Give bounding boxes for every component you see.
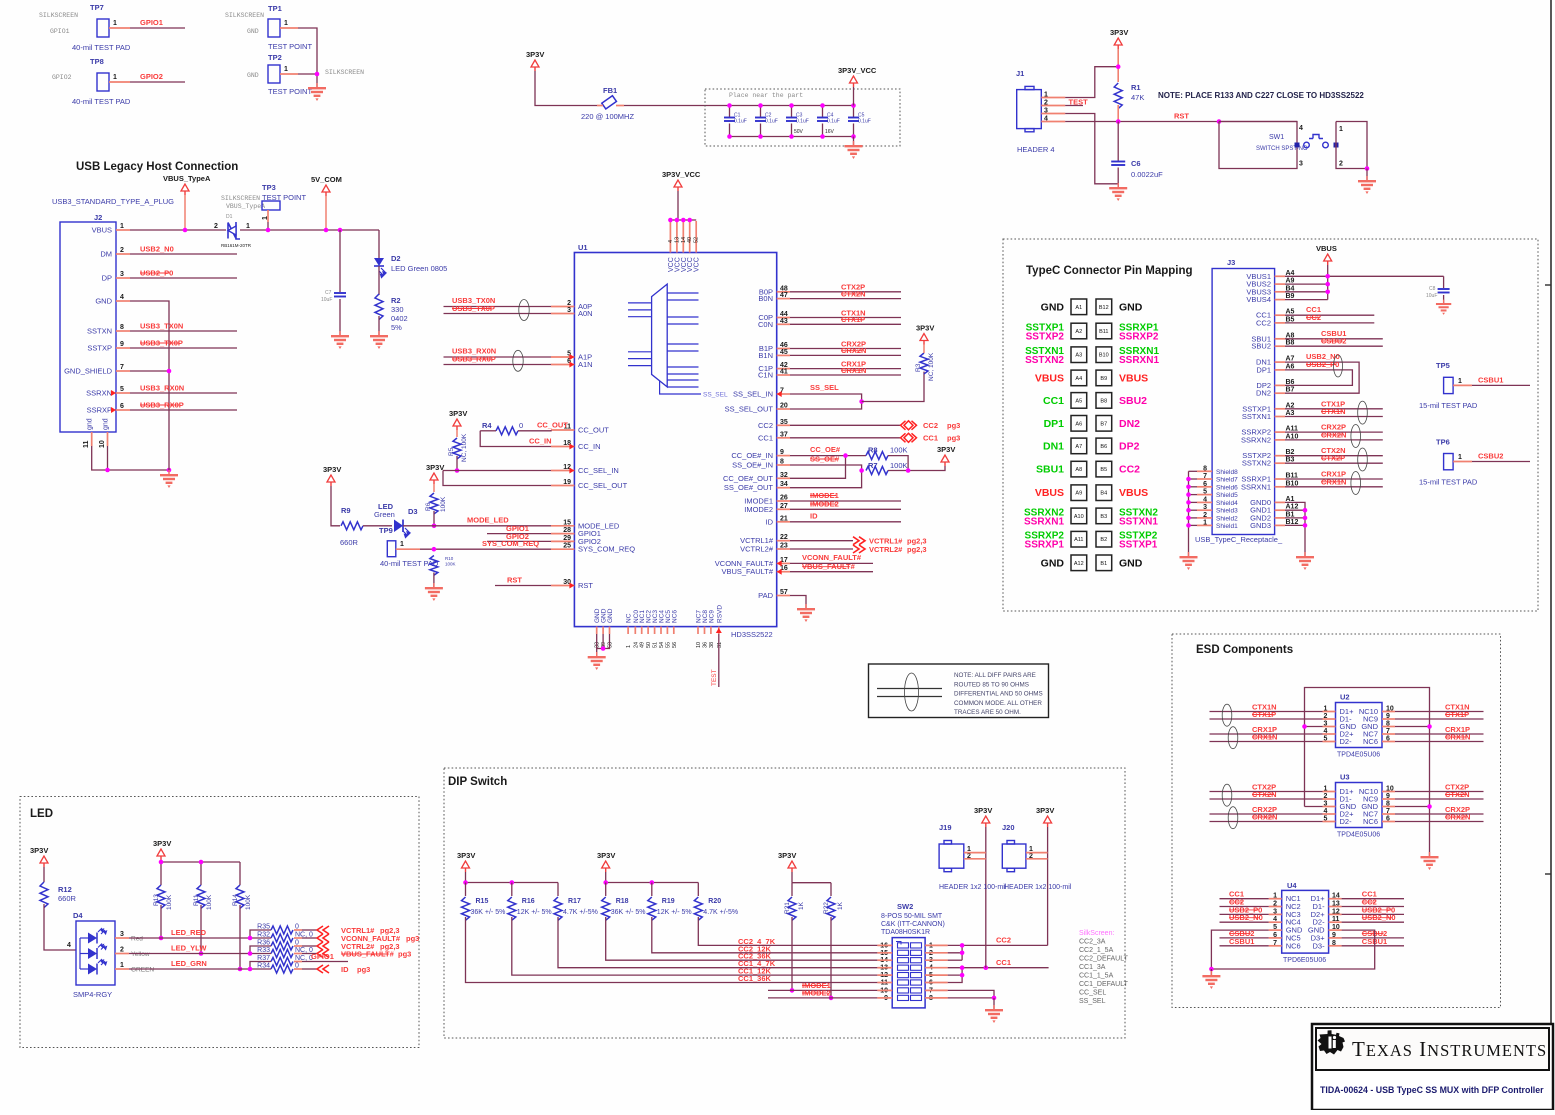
capacitor C5 0.1uF bbox=[853, 106, 855, 118]
svg-text:USB_TypeC_Receptacle_: USB_TypeC_Receptacle_ bbox=[1195, 535, 1283, 544]
svg-text:10: 10 bbox=[696, 642, 702, 648]
svg-text:pg3: pg3 bbox=[398, 950, 411, 959]
SW2 position 7 bbox=[898, 988, 909, 993]
svg-text:NC6: NC6 bbox=[671, 610, 678, 623]
capacitor C3 0.1uF bbox=[791, 106, 793, 118]
svg-text:CC1: CC1 bbox=[758, 433, 773, 442]
svg-text:SSTXN1: SSTXN1 bbox=[1119, 516, 1158, 527]
svg-text:VCTRL2#: VCTRL2# bbox=[740, 545, 774, 554]
svg-text:50: 50 bbox=[646, 642, 652, 648]
svg-text:3: 3 bbox=[120, 271, 124, 278]
svg-text:4: 4 bbox=[120, 294, 124, 301]
svg-text:36K +/- 5%: 36K +/- 5% bbox=[471, 909, 506, 916]
svg-text:RST: RST bbox=[507, 576, 522, 585]
wire CRX1P bbox=[1210, 733, 1323, 735]
svg-text:HEADER 1x2 100-mil: HEADER 1x2 100-mil bbox=[1004, 884, 1072, 891]
wire to R35 bbox=[250, 930, 271, 938]
svg-text:9: 9 bbox=[120, 341, 124, 348]
svg-text:GND: GND bbox=[1119, 557, 1143, 569]
svg-text:1: 1 bbox=[626, 645, 632, 648]
svg-text:R11: R11 bbox=[193, 894, 200, 906]
power 3P3V R3 bbox=[920, 334, 928, 341]
svg-text:GND: GND bbox=[1041, 301, 1065, 313]
wire CTX1P/CTX1N J3 bbox=[1285, 408, 1383, 410]
junction TP1/TP2 bbox=[315, 72, 320, 77]
wire LED_GRN bbox=[129, 968, 250, 970]
wire CTX2P bbox=[1210, 791, 1323, 793]
svg-text:B5: B5 bbox=[1100, 467, 1107, 473]
wire R18 to SW2 bbox=[606, 917, 878, 960]
wire CC_OUT/CC_IN bbox=[480, 431, 551, 447]
svg-text:1: 1 bbox=[120, 962, 124, 969]
resistor R22 1K bbox=[827, 897, 835, 920]
wire GPIO1 GPIO2 bbox=[487, 533, 551, 535]
wire IMODE1 IMODE2 bbox=[790, 500, 901, 502]
resistor R12 660R bbox=[43, 867, 45, 882]
svg-text:A10: A10 bbox=[1074, 514, 1084, 520]
svg-text:B2: B2 bbox=[1100, 537, 1107, 543]
svg-text:pg3: pg3 bbox=[406, 934, 419, 943]
svg-text:A9: A9 bbox=[1075, 491, 1082, 497]
junction R5/CC_SEL bbox=[455, 468, 460, 473]
svg-text:D2: D2 bbox=[391, 254, 401, 263]
svg-text:3P3V: 3P3V bbox=[1110, 28, 1128, 37]
capacitor C4 0.1uF bbox=[822, 106, 824, 118]
ground J2 bbox=[160, 470, 178, 488]
svg-text:TP2: TP2 bbox=[268, 53, 282, 62]
svg-text:GND: GND bbox=[1119, 301, 1143, 313]
power 3P3V R5 bbox=[453, 419, 461, 426]
svg-text:C0N: C0N bbox=[758, 320, 773, 329]
svg-text:4: 4 bbox=[1299, 125, 1303, 132]
resistor R21 1K bbox=[788, 897, 796, 920]
wire GPIO1 bbox=[130, 27, 185, 29]
wire to R36 bbox=[250, 946, 271, 954]
svg-text:TP5: TP5 bbox=[1436, 361, 1450, 370]
table row A5/B8 bbox=[1071, 393, 1087, 409]
table row A6/B7 bbox=[1071, 416, 1087, 432]
svg-text:CSBU1: CSBU1 bbox=[1478, 376, 1503, 385]
wire GND pin4 vertical bbox=[130, 301, 169, 470]
svg-text:ROUTED 85 TO 90 OHMS: ROUTED 85 TO 90 OHMS bbox=[954, 681, 1029, 688]
svg-text:NC6: NC6 bbox=[1363, 737, 1378, 746]
svg-text:DP1: DP1 bbox=[1256, 365, 1271, 374]
resistor R16 12K +/- 5% bbox=[511, 883, 513, 897]
svg-text:pg3: pg3 bbox=[947, 434, 960, 443]
svg-text:1: 1 bbox=[246, 223, 250, 230]
wire CC1 U4 bbox=[1220, 898, 1269, 900]
ground C6 bbox=[1117, 184, 1118, 187]
svg-text:gnd: gnd bbox=[103, 418, 110, 430]
svg-text:J20: J20 bbox=[1002, 823, 1015, 832]
svg-text:CSBU1: CSBU1 bbox=[1229, 937, 1254, 946]
svg-text:A5: A5 bbox=[1075, 398, 1082, 404]
svg-text:D3: D3 bbox=[408, 507, 418, 516]
svg-text:GPIO1: GPIO1 bbox=[50, 28, 70, 35]
svg-text:1: 1 bbox=[1458, 378, 1462, 385]
svg-text:B4: B4 bbox=[1100, 491, 1107, 497]
svg-text:R16: R16 bbox=[522, 898, 535, 905]
wire shield bus bbox=[1188, 471, 1190, 556]
power 3P3V LED bbox=[40, 856, 48, 863]
resistor R3 NC,100K bbox=[862, 372, 924, 402]
wire CC2 offpage bbox=[790, 424, 901, 426]
svg-text:D3-: D3- bbox=[1313, 941, 1326, 950]
ground C7 bbox=[331, 331, 349, 349]
svg-text:38: 38 bbox=[709, 642, 715, 648]
svg-text:R9: R9 bbox=[341, 506, 351, 515]
junction gnd vertical bbox=[167, 468, 172, 473]
table row A9/B4 bbox=[1071, 485, 1087, 501]
wire R20 to SW2 bbox=[698, 917, 877, 945]
svg-text:CC_OE#_IN: CC_OE#_IN bbox=[731, 451, 773, 460]
svg-text:SILKSCREEN: SILKSCREEN bbox=[225, 12, 264, 19]
svg-text:CC2: CC2 bbox=[923, 421, 938, 430]
wire USB2_P0 U4 bbox=[1220, 913, 1269, 915]
svg-text:LED Green 0805: LED Green 0805 bbox=[391, 264, 447, 273]
wire 3P3V to R1 bbox=[1117, 49, 1119, 55]
wire rail R18-R20 bbox=[605, 872, 607, 883]
power 3P3V R13 bbox=[157, 849, 165, 856]
svg-text:GPIO2: GPIO2 bbox=[140, 72, 163, 81]
junction CC_OE# bbox=[843, 453, 848, 458]
power 3P3V R18 bbox=[602, 861, 610, 868]
svg-text:CC1: CC1 bbox=[923, 434, 938, 443]
svg-text:SSRXN2: SSRXN2 bbox=[1241, 435, 1271, 444]
cap rail bottom bbox=[730, 136, 854, 138]
svg-text:SSRXN: SSRXN bbox=[86, 389, 112, 398]
svg-text:3P3V: 3P3V bbox=[30, 846, 48, 855]
U1 RSVD TEST net bbox=[718, 634, 720, 687]
svg-text:ID: ID bbox=[810, 512, 818, 521]
wire CRX2P/CRX2N J3 bbox=[1285, 431, 1383, 433]
capacitor C2 0.1uF bbox=[760, 106, 762, 118]
svg-text:R13: R13 bbox=[153, 894, 160, 906]
svg-text:1: 1 bbox=[120, 223, 124, 230]
svg-text:R19: R19 bbox=[662, 898, 675, 905]
svg-text:36K +/- 5%: 36K +/- 5% bbox=[611, 909, 646, 916]
junction VBUS_TypeA bbox=[183, 228, 188, 233]
svg-text:SS_OE#_IN: SS_OE#_IN bbox=[732, 461, 773, 470]
resistor R15 36K +/- 5% bbox=[465, 883, 467, 897]
dashed box DIP Switch bbox=[444, 768, 1125, 1038]
SW2 position 4 bbox=[898, 965, 909, 970]
wire CRX2N bbox=[790, 354, 901, 356]
wire CSBU2 TP6 bbox=[1472, 461, 1530, 463]
svg-text:B12: B12 bbox=[1099, 305, 1109, 311]
page frame right border bbox=[1550, 0, 1552, 1110]
junction C7 bbox=[338, 228, 343, 233]
svg-text:CC1_3A: CC1_3A bbox=[1079, 964, 1106, 971]
svg-text:USB2_N0: USB2_N0 bbox=[140, 245, 174, 254]
U1 VCC pin 40 bbox=[689, 221, 691, 253]
svg-text:SILKSCREEN: SILKSCREEN bbox=[39, 12, 78, 19]
svg-text:Shield2: Shield2 bbox=[1216, 515, 1238, 522]
offpage VCTRL2# bbox=[317, 942, 329, 950]
svg-text:GPIO1: GPIO1 bbox=[311, 952, 334, 961]
svg-text:VBUS: VBUS bbox=[1119, 372, 1148, 384]
wire J3 GND rows bbox=[1285, 502, 1305, 556]
svg-text:TPD4E05U06: TPD4E05U06 bbox=[1337, 832, 1380, 839]
svg-text:CC_IN: CC_IN bbox=[529, 437, 552, 446]
wire VBUS_TypeA bbox=[130, 229, 226, 231]
svg-text:NC6: NC6 bbox=[1363, 817, 1378, 826]
capacitor C6 0.0022uF bbox=[1117, 122, 1119, 162]
svg-text:VBUS_TypeA: VBUS_TypeA bbox=[226, 203, 265, 210]
svg-text:3P3V: 3P3V bbox=[526, 50, 544, 59]
svg-text:GND: GND bbox=[607, 608, 614, 623]
ground SW1 bbox=[1358, 176, 1376, 194]
svg-text:1: 1 bbox=[1458, 454, 1462, 461]
svg-text:8-POS 50-MIL SMT: 8-POS 50-MIL SMT bbox=[881, 913, 943, 920]
svg-text:B9: B9 bbox=[1100, 376, 1107, 382]
svg-text:40: 40 bbox=[687, 237, 693, 243]
svg-text:3: 3 bbox=[120, 931, 124, 938]
svg-text:R14: R14 bbox=[232, 894, 239, 906]
svg-text:3P3V: 3P3V bbox=[323, 465, 341, 474]
junction 3P3V/J1.1 bbox=[1116, 64, 1121, 69]
svg-text:CC_SEL: CC_SEL bbox=[1079, 990, 1106, 997]
wire CTX1N bbox=[790, 317, 901, 319]
svg-text:B1N: B1N bbox=[758, 351, 773, 360]
svg-text:J3: J3 bbox=[1227, 258, 1235, 267]
svg-text:Shield1: Shield1 bbox=[1216, 523, 1238, 530]
svg-text:R4: R4 bbox=[482, 421, 492, 430]
svg-text:SSTXN2: SSTXN2 bbox=[1242, 459, 1271, 468]
offpage VCTRL2# bbox=[853, 545, 865, 553]
svg-text:52: 52 bbox=[694, 237, 700, 243]
wire CTX1P bbox=[1210, 718, 1323, 720]
wire IMODE2 bbox=[768, 997, 877, 999]
svg-text:SS_SEL: SS_SEL bbox=[810, 383, 839, 392]
power 3P3V bbox=[531, 60, 539, 67]
wire R19 to SW2 bbox=[652, 917, 878, 953]
svg-text:100K: 100K bbox=[245, 894, 252, 910]
svg-text:R17: R17 bbox=[568, 898, 581, 905]
svg-text:SW1: SW1 bbox=[1269, 134, 1284, 141]
svg-text:DP2: DP2 bbox=[1119, 440, 1140, 452]
wire R15 to SW2 bbox=[466, 917, 878, 983]
svg-text:SSRXP: SSRXP bbox=[87, 406, 112, 415]
svg-text:VBUS: VBUS bbox=[1035, 372, 1064, 384]
svg-text:CC_OE#_OUT: CC_OE#_OUT bbox=[723, 474, 773, 483]
svg-text:D2-: D2- bbox=[1340, 817, 1353, 826]
ground PAD bbox=[797, 604, 815, 622]
svg-text:CC_OE#: CC_OE# bbox=[810, 445, 841, 454]
cap rail top bbox=[730, 105, 854, 107]
power VBUS_TypeA bbox=[181, 184, 189, 191]
svg-text:Shield4: Shield4 bbox=[1216, 500, 1238, 507]
svg-text:1: 1 bbox=[113, 74, 117, 81]
wire CC2 U4 bbox=[1220, 906, 1269, 908]
svg-text:3P3V_VCC: 3P3V_VCC bbox=[838, 66, 877, 75]
wire rail R21-R22 bbox=[791, 872, 793, 883]
wire to R37 bbox=[250, 962, 271, 970]
wire VCONN_FAULT# VBUS_FAULT# bbox=[790, 562, 873, 564]
svg-text:CC1_36K: CC1_36K bbox=[738, 974, 772, 983]
TI logo bbox=[1318, 1030, 1346, 1054]
wire LED_RED bbox=[129, 937, 250, 939]
svg-text:LED_RED: LED_RED bbox=[171, 928, 207, 937]
diff pair TX bbox=[519, 300, 529, 321]
wire USB2_N0 USB2_P0 loop bbox=[1285, 362, 1359, 393]
wire rail R15-R17 bbox=[465, 872, 467, 883]
svg-text:0.0022uF: 0.0022uF bbox=[1131, 170, 1163, 179]
svg-text:USB3_RX0N: USB3_RX0N bbox=[140, 384, 184, 393]
svg-text:TEST POINT: TEST POINT bbox=[268, 42, 312, 51]
wire SW2 CC2 group bbox=[948, 945, 962, 952]
wire USB3_RX0P bbox=[130, 409, 237, 411]
svg-text:3P3V: 3P3V bbox=[449, 409, 467, 418]
wire MODE_LED bbox=[403, 525, 551, 527]
svg-text:A1: A1 bbox=[1075, 305, 1082, 311]
table row A8/B5 bbox=[1071, 461, 1087, 477]
svg-text:100K: 100K bbox=[166, 894, 173, 910]
resistor R1 47K bbox=[1114, 83, 1122, 109]
junction U1 gnd bbox=[601, 646, 606, 651]
power 3P3V R6 bbox=[430, 473, 438, 480]
wire CC1 offpage bbox=[790, 437, 901, 439]
mux symbol inside U1 bbox=[652, 284, 668, 387]
U1 VCC pin 13 bbox=[676, 221, 678, 253]
wire J1.3 to gnd bbox=[1065, 114, 1117, 184]
wire SYS_COM_REQ bbox=[420, 548, 551, 550]
svg-text:4: 4 bbox=[668, 240, 674, 243]
svg-text:GPIO1: GPIO1 bbox=[140, 18, 163, 27]
svg-text:CC1: CC1 bbox=[996, 958, 1011, 967]
svg-text:R3: R3 bbox=[915, 363, 922, 372]
svg-text:NOTE: PLACE R133 AND C227 CLOS: NOTE: PLACE R133 AND C227 CLOSE TO HD3SS… bbox=[1158, 91, 1364, 100]
svg-text:0.1uF: 0.1uF bbox=[858, 119, 871, 125]
svg-text:SS_SEL: SS_SEL bbox=[1079, 998, 1106, 1005]
svg-text:36: 36 bbox=[703, 642, 709, 648]
wire TP2 bbox=[298, 74, 317, 87]
wire LED_YLW bbox=[129, 953, 250, 955]
svg-text:SSTXP: SSTXP bbox=[87, 344, 112, 353]
svg-text:pg3: pg3 bbox=[947, 421, 960, 430]
wire R21 to IMODE1 bbox=[791, 917, 793, 990]
svg-text:C8: C8 bbox=[1429, 286, 1436, 292]
svg-text:CC2: CC2 bbox=[996, 936, 1011, 945]
svg-text:3P3V: 3P3V bbox=[597, 851, 615, 860]
svg-text:3P3V: 3P3V bbox=[457, 851, 475, 860]
svg-text:R18: R18 bbox=[616, 898, 629, 905]
svg-text:GND_SHIELD: GND_SHIELD bbox=[64, 367, 113, 376]
resistor R2 330 bbox=[375, 294, 383, 320]
svg-text:1: 1 bbox=[400, 541, 404, 548]
power 3P3V R7 bbox=[941, 455, 949, 462]
svg-text:51: 51 bbox=[653, 642, 659, 648]
svg-text:HEADER 4: HEADER 4 bbox=[1017, 145, 1055, 154]
svg-text:DN2: DN2 bbox=[1256, 389, 1271, 398]
resistor R10 100K bbox=[430, 556, 438, 576]
SW2 position 3 bbox=[898, 958, 909, 963]
svg-text:1K: 1K bbox=[798, 901, 805, 910]
svg-text:A7: A7 bbox=[1075, 444, 1082, 450]
wire TEST bbox=[1065, 105, 1083, 107]
SW2 position 6 bbox=[898, 980, 909, 985]
junction gnd pins bbox=[105, 468, 110, 473]
svg-text:TP7: TP7 bbox=[90, 3, 104, 12]
svg-text:RST: RST bbox=[578, 581, 593, 590]
wire RST net bbox=[1065, 121, 1297, 123]
svg-text:U1: U1 bbox=[578, 243, 588, 252]
svg-text:VBUS4: VBUS4 bbox=[1246, 295, 1271, 304]
resistor R18 36K +/- 5% bbox=[605, 883, 607, 897]
svg-text:R5: R5 bbox=[448, 447, 455, 456]
svg-text:D1: D1 bbox=[226, 214, 233, 220]
wire CRX2P bbox=[1210, 813, 1323, 815]
svg-text:FB1: FB1 bbox=[603, 86, 617, 95]
svg-text:DP1: DP1 bbox=[1044, 418, 1065, 430]
svg-text:SS_SEL_OUT: SS_SEL_OUT bbox=[725, 405, 774, 414]
title block Texas Instruments bbox=[1312, 1024, 1553, 1110]
svg-text:SILKSCREEN: SILKSCREEN bbox=[221, 195, 260, 202]
svg-text:B3: B3 bbox=[1100, 514, 1107, 520]
svg-text:DIP Switch: DIP Switch bbox=[448, 776, 507, 788]
capacitor C1 0.1uF bbox=[729, 106, 731, 118]
dashed box LED bbox=[20, 797, 419, 1048]
wire SS_OE# net bbox=[790, 465, 862, 488]
svg-text:R21: R21 bbox=[784, 902, 791, 914]
svg-text:USB3_TX0N: USB3_TX0N bbox=[140, 322, 183, 331]
svg-text:2: 2 bbox=[120, 947, 124, 954]
svg-text:SS_OE#_OUT: SS_OE#_OUT bbox=[724, 483, 774, 492]
junction J19 bbox=[984, 965, 989, 970]
wire U4 gnd left bbox=[1211, 930, 1268, 969]
U1 VCC pin 4 bbox=[669, 221, 671, 253]
svg-text:100K: 100K bbox=[445, 562, 456, 567]
table row A4/B9 bbox=[1071, 370, 1087, 386]
svg-text:0.1uF: 0.1uF bbox=[827, 119, 840, 125]
wire CC_SEL_IN/OUT bbox=[443, 470, 551, 472]
wire GPIO2 bbox=[130, 81, 185, 83]
svg-text:A3: A3 bbox=[1075, 353, 1082, 359]
ground C8 bbox=[1436, 300, 1451, 315]
svg-text:100K: 100K bbox=[890, 461, 908, 470]
svg-text:SSTXN: SSTXN bbox=[87, 327, 112, 336]
svg-text:0: 0 bbox=[519, 421, 523, 430]
svg-text:2: 2 bbox=[120, 247, 124, 254]
svg-text:SSTXN1: SSTXN1 bbox=[1242, 412, 1271, 421]
svg-text:LED_GRN: LED_GRN bbox=[171, 959, 207, 968]
wire CTX2N bbox=[790, 298, 901, 300]
wire USB2_N0 bbox=[130, 253, 237, 255]
svg-text:4.7K +/-5%: 4.7K +/-5% bbox=[563, 909, 598, 916]
svg-text:47K: 47K bbox=[1131, 93, 1144, 102]
svg-text:CC2_3A: CC2_3A bbox=[1079, 939, 1106, 946]
junction SS_OE# bbox=[859, 468, 864, 473]
svg-text:1: 1 bbox=[284, 20, 288, 27]
wire CC_OE# net bbox=[790, 455, 866, 457]
svg-text:LED: LED bbox=[30, 808, 53, 820]
svg-text:3P3V: 3P3V bbox=[153, 839, 171, 848]
dashed box TypeC pin mapping bbox=[1003, 239, 1538, 611]
SW2 position 8 bbox=[898, 995, 909, 1000]
svg-text:R6: R6 bbox=[425, 502, 432, 511]
power VBUS J3 bbox=[1324, 254, 1332, 261]
ground R10 bbox=[425, 583, 443, 601]
junction R6/MODE_LED bbox=[432, 524, 437, 529]
SW2 position 2 bbox=[898, 950, 909, 955]
svg-text:R10: R10 bbox=[445, 556, 454, 561]
svg-text:IMODE2: IMODE2 bbox=[744, 505, 773, 514]
svg-text:U2: U2 bbox=[1340, 693, 1350, 702]
svg-text:SSRXN1: SSRXN1 bbox=[1119, 355, 1159, 366]
svg-text:TEST: TEST bbox=[1069, 98, 1089, 107]
svg-text:USB Legacy Host Connection: USB Legacy Host Connection bbox=[76, 161, 238, 173]
svg-text:54: 54 bbox=[659, 642, 665, 648]
